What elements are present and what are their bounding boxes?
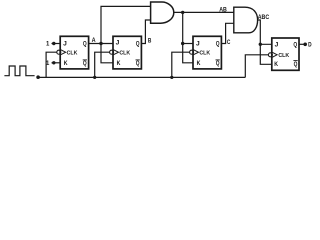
svg-text:K: K [64, 61, 68, 67]
wire A down to K2 [101, 44, 113, 63]
clock waveform [4, 66, 34, 76]
svg-text:Q: Q [136, 41, 140, 47]
wire Q2 to AND1 input (node B) [141, 20, 150, 44]
svg-text:Q: Q [293, 43, 297, 49]
wire A up to AND1 input [101, 6, 151, 43]
svg-text:K: K [274, 62, 278, 68]
svg-text:CLK: CLK [278, 53, 290, 59]
svg-text:K: K [197, 61, 201, 67]
wire ABC down to K4 [260, 44, 272, 64]
junction dot at J3 [181, 42, 184, 45]
wire clock rail [40, 76, 246, 78]
svg-text:J: J [275, 43, 279, 49]
svg-text:AB: AB [219, 7, 227, 13]
svg-text:Q: Q [294, 62, 298, 68]
wire AND2 output down to J4 [257, 20, 271, 44]
clock input node dot [36, 75, 40, 79]
wire Q3 to AND2 input (node C) [221, 23, 233, 43]
wire FF4 clock branch [245, 55, 268, 78]
flip-flop FF2 [110, 36, 142, 69]
svg-text:A: A [92, 38, 97, 44]
svg-text:J: J [116, 41, 120, 47]
svg-text:1: 1 [46, 61, 50, 67]
wire 1 to J FF1 [52, 43, 61, 45]
node dot 1 to J FF1 [52, 42, 55, 45]
svg-text:K: K [117, 61, 121, 67]
junction dot AB [181, 11, 184, 14]
svg-text:Q: Q [83, 41, 87, 47]
flip-flop FF1 [57, 36, 89, 69]
junction dot at J4 [259, 43, 262, 46]
wire FF3 clock branch [172, 52, 190, 77]
svg-text:D: D [308, 43, 312, 49]
junction FF3 clock on rail [170, 76, 173, 79]
svg-text:Q: Q [136, 61, 140, 67]
wire Q1 to J2 (node A) [89, 43, 113, 45]
svg-text:Q: Q [83, 61, 87, 67]
svg-text:1: 1 [46, 42, 50, 48]
wire FF2 clock branch [95, 52, 110, 77]
svg-text:C: C [227, 40, 231, 46]
svg-text:Q: Q [216, 41, 220, 47]
AND gate G2 [234, 7, 258, 33]
svg-text:J: J [63, 41, 67, 47]
AND gate G1 [151, 2, 174, 23]
junction FF2 clock on rail [93, 76, 96, 79]
node dot 1 to K FF1 [52, 61, 55, 64]
svg-text:CLK: CLK [119, 51, 131, 57]
wire AB down to J3 [182, 12, 184, 43]
node dot D [303, 43, 307, 47]
svg-text:CLK: CLK [199, 51, 211, 57]
wire AB to J3 [183, 43, 193, 45]
wire AB down to K3 [183, 44, 193, 63]
svg-text:CLK: CLK [67, 51, 79, 57]
svg-text:Q: Q [216, 61, 220, 67]
wire 1 to K FF1 [52, 62, 61, 64]
junction dot node A [99, 42, 102, 45]
svg-text:B: B [148, 39, 152, 45]
svg-text:J: J [196, 41, 200, 47]
flip-flop FF4 [268, 38, 299, 70]
wire FF1 clock branch [46, 52, 57, 77]
flip-flop FF3 [190, 36, 222, 69]
wire AND1 output to AND2 (net AB) [174, 11, 234, 13]
wire Q4 to D output [299, 43, 307, 45]
